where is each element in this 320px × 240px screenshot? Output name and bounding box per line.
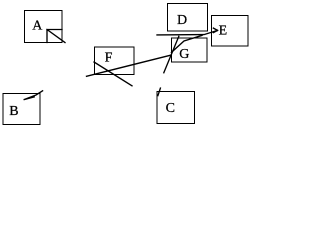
svg-text:F: F bbox=[105, 50, 113, 65]
svg-text:B: B bbox=[9, 104, 18, 119]
svg-text:A: A bbox=[32, 19, 43, 34]
svg-text:G: G bbox=[179, 47, 189, 62]
svg-text:D: D bbox=[177, 13, 187, 28]
svg-text:C: C bbox=[166, 101, 175, 116]
svg-text:E: E bbox=[219, 24, 228, 39]
